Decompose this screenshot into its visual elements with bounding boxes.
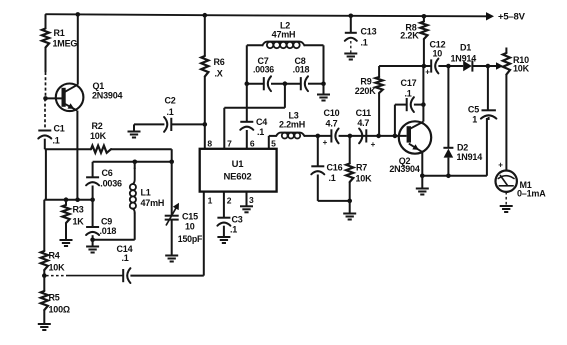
node C6/C9 junction (90, 197, 95, 202)
capacitor C15 10-150pF variable (165, 203, 203, 244)
wire R5 bottom to ground (43, 310, 45, 324)
ground below Q2 emitter (416, 189, 429, 195)
wire tank left down to C4 (246, 84, 248, 122)
capacitor C11 4.7 (356, 108, 376, 149)
ground below C9 (86, 247, 99, 253)
inductor L1 47mH (130, 168, 164, 213)
svg-text:1N914: 1N914 (457, 152, 483, 162)
wire U1 pin1 vertical (203, 192, 205, 276)
diode D1 1N914 (451, 43, 477, 72)
svg-text:+: + (371, 140, 376, 149)
wire C4 to pin 6 (246, 130, 248, 149)
svg-text:R2: R2 (92, 121, 103, 131)
wire tank bottom left segment (247, 83, 264, 85)
svg-text:4.7: 4.7 (326, 119, 338, 129)
node tank right junction (321, 81, 326, 86)
resistor R1 (42, 28, 78, 49)
capacitor C13 .1 (345, 27, 377, 48)
node C16 junction (316, 134, 321, 139)
svg-text:1MEG: 1MEG (53, 39, 78, 49)
wire tank right to ground (323, 84, 325, 95)
capacitor C12 10 (425, 40, 445, 77)
resistor R2 10K (90, 121, 111, 153)
pin 8 label (207, 139, 212, 149)
wire pin 3 stub to ground (246, 192, 248, 207)
wire between C7 and C8 (271, 83, 301, 85)
svg-text:C16: C16 (327, 163, 343, 173)
ground at pin 3 (240, 206, 253, 212)
wire C15 bottom to ground (171, 220, 173, 256)
wire left rail down from R2 node to emitter line (45, 149, 47, 200)
svg-text:220K: 220K (355, 86, 376, 96)
wire C2 to pin8 node (171, 123, 205, 125)
svg-text:.1: .1 (167, 107, 174, 117)
wire C16 bottom to ground node (318, 175, 350, 201)
pin 1 label (208, 196, 213, 206)
capacitor C2 .1 (164, 96, 176, 132)
wire C16 top lead (317, 136, 319, 166)
node rail junction at R8 (422, 14, 427, 19)
wire rail to C13 (350, 16, 352, 33)
svg-text:.1: .1 (230, 225, 237, 235)
svg-text:+5–8V: +5–8V (498, 12, 526, 23)
node C17/collector junction (421, 102, 426, 107)
svg-text:R4: R4 (49, 251, 60, 261)
wire R6 bottom to pin8 node (204, 77, 206, 125)
wire R10 to meter (505, 75, 507, 172)
svg-text:8: 8 (207, 139, 212, 149)
capacitor C6 .0036 (86, 168, 122, 189)
capacitor C8 .018 (293, 56, 310, 91)
wire C5 top lead (487, 66, 489, 110)
svg-text:C3: C3 (232, 215, 243, 225)
svg-text:.0036: .0036 (253, 65, 274, 75)
wire C9 node ground stub (92, 240, 94, 247)
wire +V supply rail (46, 14, 487, 16)
resistor R9 220K (378, 66, 380, 77)
svg-text:D1: D1 (460, 43, 471, 53)
node rail junction at C13 (349, 14, 354, 19)
node R9 junction (376, 134, 381, 139)
capacitor C10 4.7 (323, 108, 340, 147)
ground below R5 (38, 324, 51, 330)
svg-text:C1: C1 (54, 124, 65, 134)
node Q1 emitter junction (75, 197, 80, 202)
svg-text:C6: C6 (102, 168, 113, 178)
svg-text:47mH: 47mH (272, 30, 296, 40)
svg-text:.1: .1 (329, 173, 336, 183)
svg-text:C4: C4 (256, 117, 267, 127)
pin 2 label (227, 196, 232, 206)
svg-text:+: + (498, 161, 503, 170)
ground below C3 (217, 237, 230, 243)
wire emitter node line (44, 199, 92, 201)
svg-text:1N914: 1N914 (451, 54, 477, 64)
svg-text:C15: C15 (182, 212, 198, 222)
svg-text:C10: C10 (324, 108, 340, 118)
wire rail to R6 (204, 15, 206, 56)
node C2/R6/pin8 junction (203, 122, 208, 127)
capacitor C1 .1 (38, 124, 64, 146)
wire C1 bottom to R2 node (45, 139, 46, 150)
node C16/R7 ground junction (347, 199, 352, 204)
wire C13 to ground (350, 41, 352, 54)
wire L1 bottom to C9 node (93, 213, 135, 240)
wire R9 top wire to C12 (379, 65, 430, 67)
node D2 bottom junction (446, 174, 451, 179)
svg-text:100Ω: 100Ω (49, 305, 70, 315)
node C17/base junction (393, 134, 398, 139)
capacitor C9 .018 (86, 217, 116, 237)
wire R9 bottom to base line (378, 93, 380, 136)
node Q1 base junction (43, 96, 48, 101)
svg-text:R1: R1 (54, 28, 65, 38)
wire tank top wire left (247, 44, 264, 46)
wire C8 to tank right corner (308, 83, 324, 85)
svg-text:2: 2 (227, 196, 232, 206)
svg-text:+: + (323, 138, 328, 147)
resistor R6 (201, 56, 225, 79)
svg-text:U1: U1 (232, 159, 245, 170)
wire R4/R5 node to C14 (46, 275, 123, 277)
svg-text:10K: 10K (49, 263, 66, 273)
capacitor C17 .1 (401, 78, 417, 112)
svg-text:2N3904: 2N3904 (389, 164, 420, 174)
svg-text:47mH: 47mH (141, 198, 165, 208)
node R4/R5/C14 junction (42, 273, 47, 278)
svg-text:7: 7 (227, 139, 232, 149)
resistor R5 100ohm (41, 291, 70, 315)
node C15 top junction (169, 160, 174, 165)
ground below C16/R7 (343, 214, 356, 220)
transistor Q2 2N3904 (389, 121, 431, 174)
capacitor C3 .1 (217, 215, 242, 235)
svg-text:C11: C11 (356, 108, 372, 118)
ground below R3 (60, 240, 73, 246)
svg-text:5: 5 (271, 138, 276, 148)
wire emitter line to R4 (43, 200, 45, 251)
svg-text:10: 10 (185, 222, 195, 232)
svg-text:C2: C2 (165, 96, 176, 106)
svg-text:10: 10 (433, 49, 443, 59)
node rail junction at R6 (203, 13, 208, 18)
svg-text:3: 3 (249, 195, 254, 205)
pin 3 label (249, 195, 254, 205)
node R3 top junction (64, 197, 69, 202)
wire pin 2 stub to C3 (223, 192, 225, 218)
node tank middle junction (283, 81, 288, 86)
wire C9 bottom to L1 bottom node (92, 235, 94, 240)
resistor R4 10K (41, 251, 65, 273)
node C12/D1/D2 junction (446, 64, 451, 69)
resistor R7 10K (346, 136, 372, 201)
svg-text:1: 1 (208, 196, 213, 206)
op-amp U1 NE602 (mixer IC) (200, 149, 277, 192)
svg-text:1K: 1K (73, 217, 85, 227)
wire node to R5 (43, 276, 45, 291)
transistor Q1 2N3904 (56, 81, 123, 111)
svg-text:R9: R9 (360, 77, 371, 87)
wire C10 to C11 (339, 135, 367, 137)
capacitor C4 .1 (240, 117, 267, 137)
wire Q2 collector up (422, 66, 424, 122)
wire C11 to Q2 base (366, 135, 406, 137)
wire C5 bottom to emitter wire (487, 117, 489, 176)
pin 6 label (250, 139, 255, 149)
svg-text:.0036: .0036 (100, 179, 122, 189)
wire tank right vertical (323, 45, 325, 83)
wire C12 to D2 node (438, 65, 463, 67)
inductor L2 47mH (263, 21, 305, 49)
wire ground stub to C2 (134, 124, 164, 131)
wire Q1 base node down to C1 (44, 98, 46, 130)
svg-text:NE602: NE602 (223, 172, 251, 183)
resistor R10 10K pot (503, 48, 530, 75)
wire R2 to corner and down to tank node (111, 149, 172, 162)
pin 5 label (271, 138, 276, 148)
svg-text:C5: C5 (468, 105, 479, 115)
wire C3 bottom to ground (223, 226, 225, 237)
svg-text:.1: .1 (404, 89, 411, 99)
wire C1/R2 node to R2 (45, 148, 91, 150)
meter M1 0-1mA (496, 161, 547, 199)
ground below tank (317, 95, 330, 101)
wire L1 top lead (134, 162, 136, 169)
capacitor C14 .1 (117, 244, 133, 283)
svg-text:.1: .1 (122, 253, 129, 263)
capacitor C5 1 (468, 105, 497, 125)
wire Q2 emitter down (421, 152, 423, 176)
wire R4 bottom to node (43, 270, 45, 276)
node Q2 emitter junction (420, 174, 425, 179)
inductor L3 2.2mH (276, 111, 305, 139)
wire tank middle to pin 7 (224, 84, 285, 149)
wire ground stub C16/R7 (349, 201, 351, 214)
resistor R9 body (355, 77, 383, 97)
wire output node to R10 wiper (488, 62, 503, 70)
svg-text:.018: .018 (100, 226, 117, 236)
ground at C2 input (128, 132, 141, 138)
svg-text:.1: .1 (257, 127, 264, 137)
wire Q1 emitter down (76, 111, 78, 200)
wire C15 column (171, 162, 173, 216)
node R7 junction (348, 134, 353, 139)
wire R1 bottom to Q1 base node (45, 48, 47, 99)
node rail junction at R1/Q1 collector (76, 12, 81, 17)
svg-text:2N3904: 2N3904 (92, 91, 123, 101)
node L1 top junction (133, 160, 138, 165)
wire base node to Q1 base (46, 97, 62, 99)
wire tank top wire right (304, 44, 324, 46)
svg-text:R7: R7 (356, 163, 367, 173)
svg-text:.018: .018 (293, 65, 310, 75)
svg-text:2.2mH: 2.2mH (279, 120, 305, 130)
power +5-8V arrow terminal (486, 12, 526, 23)
svg-text:C9: C9 (101, 217, 112, 227)
wire L3 to C10 (304, 135, 331, 137)
capacitor C16 .1 (311, 163, 342, 184)
svg-text:Q1: Q1 (93, 81, 105, 91)
wire node A down to C6 (92, 162, 94, 178)
ground below C13 (344, 54, 357, 60)
svg-text:C17: C17 (401, 78, 417, 88)
wire rail corner to R1 top (45, 14, 47, 28)
wire C6 bottom to emitter node (92, 186, 94, 200)
svg-text:R3: R3 (73, 205, 84, 215)
wire emitter node to C9 (92, 200, 94, 227)
svg-text:150pF: 150pF (178, 234, 203, 244)
svg-text:C13: C13 (361, 27, 377, 37)
svg-text:2.2K: 2.2K (400, 31, 419, 41)
svg-text:R5: R5 (49, 293, 60, 303)
ground below M1 (500, 206, 513, 212)
node C9/L1 ground junction (90, 238, 95, 243)
svg-text:D2: D2 (457, 143, 468, 153)
svg-text:L1: L1 (141, 188, 151, 198)
wire node A line (C6/L1/C15 top) (93, 161, 172, 163)
pin 7 label (227, 139, 232, 149)
wire C14 to U1 pin1 drop (130, 275, 203, 277)
svg-text:.1: .1 (53, 136, 60, 146)
node D1/C5/R10 junction (486, 64, 491, 69)
wire C17 left leg (395, 105, 407, 136)
ground below C15 (165, 256, 178, 262)
svg-text:.1: .1 (361, 38, 368, 48)
svg-text:1: 1 (472, 115, 477, 125)
wire rail to R8 (423, 16, 425, 21)
svg-text:0–1mA: 0–1mA (517, 189, 546, 199)
node tank left junction (245, 81, 250, 86)
capacitor C7 .0036 (253, 56, 274, 91)
svg-text:10K: 10K (513, 64, 530, 74)
wire pin8 stub (204, 124, 206, 148)
wire M1 to ground (dashed) (505, 192, 507, 206)
wire emitter ground stub (421, 176, 423, 189)
svg-text:.X: .X (215, 69, 223, 79)
resistor R8 2.2K (400, 22, 427, 41)
diode D2 1N914 (443, 66, 482, 176)
wire pin 5 to L3 (269, 136, 277, 149)
wire C17 right to collector node (414, 104, 424, 106)
wire Q1 collector to rail (77, 14, 79, 84)
svg-text:10K: 10K (356, 174, 373, 184)
svg-text:R6: R6 (214, 57, 225, 67)
svg-text:6: 6 (250, 139, 255, 149)
wire emitter/detector return (422, 175, 487, 177)
wire R8 bottom to collector node (423, 39, 425, 66)
node R8/C12/collector junction (422, 64, 427, 69)
resistor R3 1K (62, 200, 84, 240)
wire tank top left vertical (246, 45, 248, 83)
svg-text:10K: 10K (90, 131, 107, 141)
wire D1 to output node (472, 65, 488, 67)
svg-text:4.7: 4.7 (357, 118, 369, 128)
svg-text:+: + (425, 67, 430, 76)
